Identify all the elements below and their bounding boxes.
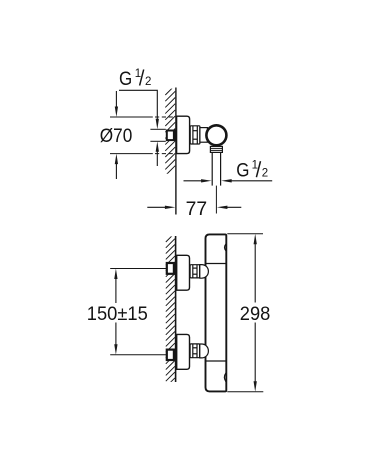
wall hatching top view [165, 85, 175, 176]
connector between nut and body [200, 128, 208, 143]
Ø70 outside arrow below [115, 154, 118, 165]
svg-text:2: 2 [262, 168, 268, 180]
svg-text:1: 1 [135, 68, 141, 80]
connection 2 hex nut [190, 344, 200, 358]
dim 77 right arrow [217, 206, 228, 209]
connection 1 dome cap into body [200, 265, 209, 279]
connection 1 wall union square nut [167, 263, 175, 274]
label G1/2 top [119, 68, 151, 90]
svg-text:2: 2 [145, 76, 151, 88]
connection 1 hex nut [190, 265, 200, 278]
supply union square nut [167, 131, 175, 141]
dim 150±15 line and arrows [114, 269, 117, 280]
leader bracket from G1/2 to supply thread [119, 90, 157, 121]
arrow up to supply pipe bottom edge [156, 141, 159, 152]
svg-text:77: 77 [186, 198, 208, 220]
dim 77 left arrow [147, 206, 167, 208]
wall line bottom view [175, 236, 177, 382]
fraction slash of right G1/2 [256, 161, 260, 177]
svg-text:G: G [119, 69, 132, 90]
right G1/2 arrow (left side) [184, 180, 204, 182]
supply pipe stub lines [150, 128, 165, 130]
arrow down to supply pipe top edge [156, 119, 159, 130]
connection 2 (cold) escutcheon [177, 334, 190, 369]
cap seam arc upper [225, 244, 226, 251]
thermostat body circle (side view) [206, 125, 226, 145]
body joint line upper [206, 263, 227, 265]
hex union nut top view [190, 126, 200, 144]
dim 298 extension line upper [227, 233, 263, 235]
dim 298 extension line lower [227, 391, 263, 393]
connection 1 (hot) escutcheon [177, 255, 190, 290]
cap seam arc lower [224, 373, 226, 382]
dim 298 line and arrows [254, 234, 257, 245]
shower outlet collar [210, 146, 222, 152]
mixer body (side view) [206, 234, 227, 391]
svg-text:G: G [236, 161, 249, 182]
right G1/2 arrow (right side, under label) [221, 179, 232, 182]
wall line top view [175, 88, 177, 215]
svg-text:Ø70: Ø70 [100, 125, 133, 147]
svg-text:298: 298 [240, 303, 271, 325]
dim Ø70 top extension line [110, 116, 153, 118]
dim 150±15 extension line upper [110, 268, 166, 270]
escutcheon top view [177, 116, 190, 153]
wall hatching bottom view [166, 233, 175, 387]
svg-text:1: 1 [252, 160, 258, 172]
body joint line lower [206, 360, 227, 362]
dim 150±15 extension line lower [110, 354, 166, 356]
svg-text:150±15: 150±15 [87, 303, 148, 325]
fraction slash of top G1/2 [140, 70, 144, 86]
label G1/2 right [236, 160, 268, 182]
pipe centerline extension [215, 186, 217, 214]
dim Ø70 bottom extension line [110, 153, 153, 155]
outlet pipe down [211, 152, 213, 185]
connection 2 wall union square nut [167, 350, 175, 360]
Ø70 outside arrow above [115, 91, 117, 110]
connection 2 dome cap into body [200, 344, 209, 358]
